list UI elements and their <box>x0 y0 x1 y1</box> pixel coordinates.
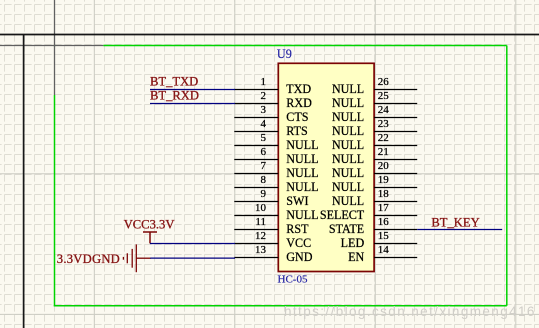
svg-text:NULL: NULL <box>286 180 318 194</box>
pin 15 (LED) right <box>341 230 418 250</box>
svg-text:U9: U9 <box>277 47 292 61</box>
svg-text:NULL: NULL <box>332 180 364 194</box>
pin 3 (CTS) left <box>234 104 308 124</box>
sheet border black vertical line <box>23 34 25 328</box>
pin 16 (STATE) right <box>329 216 417 236</box>
svg-text:1: 1 <box>261 76 267 88</box>
svg-text:16: 16 <box>378 216 390 228</box>
pin 23 (NULL) right <box>332 118 417 138</box>
svg-text:NULL: NULL <box>332 82 364 96</box>
svg-text:4: 4 <box>261 118 267 130</box>
wire ground to pin 13 <box>150 257 235 259</box>
svg-text:NULL: NULL <box>332 96 364 110</box>
svg-text:12: 12 <box>255 230 266 242</box>
svg-text:3: 3 <box>261 104 267 116</box>
svg-text:20: 20 <box>378 160 390 172</box>
svg-text:SWI: SWI <box>286 194 308 208</box>
pin 18 (NULL) right <box>332 188 417 208</box>
svg-text:7: 7 <box>261 160 267 172</box>
svg-text:8: 8 <box>261 174 267 186</box>
svg-text:6: 6 <box>261 146 267 158</box>
svg-text:NULL: NULL <box>332 194 364 208</box>
svg-text:23: 23 <box>378 118 390 130</box>
wire BT_RXD to pin 2 <box>150 103 235 105</box>
svg-text:BT_KEY: BT_KEY <box>431 216 479 230</box>
svg-text:RST: RST <box>286 222 309 236</box>
pin 20 (NULL) right <box>332 160 417 180</box>
ground symbol 3.3VDGND (power ground bars) <box>123 244 150 272</box>
sheet inner frame gray vertical line <box>54 0 56 95</box>
wire BT_TXD to pin 1 <box>150 89 235 91</box>
wire VCC3.3V to pin 12 <box>150 243 235 245</box>
svg-text:STATE: STATE <box>329 222 364 236</box>
svg-text:15: 15 <box>378 230 390 242</box>
svg-text:13: 13 <box>255 244 267 256</box>
pin 5 (NULL) left <box>234 132 318 152</box>
svg-text:NULL: NULL <box>286 138 318 152</box>
svg-text:9: 9 <box>261 188 267 200</box>
power port VCC3.3V (bar symbol) <box>143 232 157 243</box>
svg-text:NULL: NULL <box>332 166 364 180</box>
svg-text:NULL: NULL <box>286 152 318 166</box>
svg-text:14: 14 <box>378 244 390 256</box>
pin 14 (EN) right <box>348 244 417 264</box>
pin 13 (GND) left <box>234 244 312 264</box>
svg-text:22: 22 <box>378 132 389 144</box>
svg-text:GND: GND <box>286 250 312 264</box>
sheet border black horizontal line <box>0 34 539 36</box>
svg-text:NULL: NULL <box>332 152 364 166</box>
pin 6 (NULL) left <box>234 146 318 166</box>
pin 10 (NULL) left <box>234 202 318 222</box>
pin 2 (RXD) left <box>234 90 312 110</box>
svg-text:BT_TXD: BT_TXD <box>150 75 198 89</box>
svg-text:NULL: NULL <box>286 208 318 222</box>
green boundary rectangle <box>54 45 507 307</box>
svg-text:CTS: CTS <box>286 110 308 124</box>
svg-text:VCC3.3V: VCC3.3V <box>124 217 175 231</box>
pin 17 (SELECT) right <box>320 202 417 222</box>
svg-text:EN: EN <box>348 250 364 264</box>
svg-text:25: 25 <box>378 90 390 102</box>
pin 21 (NULL) right <box>332 146 417 166</box>
svg-text:RTS: RTS <box>286 124 307 138</box>
svg-text:NULL: NULL <box>332 110 364 124</box>
pin 9 (SWI) left <box>234 188 308 208</box>
svg-text:24: 24 <box>378 104 390 116</box>
wire BT_KEY from pin 16 <box>417 229 502 231</box>
svg-text:SELECT: SELECT <box>320 208 365 222</box>
svg-text:NULL: NULL <box>286 166 318 180</box>
svg-text:LED: LED <box>341 236 365 250</box>
svg-text:5: 5 <box>261 132 267 144</box>
svg-text:21: 21 <box>378 146 389 158</box>
svg-text:3.3VDGND: 3.3VDGND <box>57 252 120 266</box>
svg-text:HC-05: HC-05 <box>278 274 308 286</box>
pin 1 (TXD) left <box>234 76 311 96</box>
svg-text:10: 10 <box>255 202 267 214</box>
pin 26 (NULL) right <box>332 76 417 96</box>
pin 11 (RST) left <box>234 216 309 236</box>
svg-text:26: 26 <box>378 76 390 88</box>
svg-text:17: 17 <box>378 202 390 214</box>
svg-text:NULL: NULL <box>332 138 364 152</box>
svg-text:18: 18 <box>378 188 390 200</box>
svg-text:NULL: NULL <box>332 124 364 138</box>
svg-text:2: 2 <box>261 90 267 102</box>
svg-text:BT_RXD: BT_RXD <box>150 89 199 103</box>
pin 25 (NULL) right <box>332 90 417 110</box>
pin 4 (RTS) left <box>234 118 307 138</box>
svg-text:11: 11 <box>255 216 266 228</box>
pin 24 (NULL) right <box>332 104 417 124</box>
pin 22 (NULL) right <box>332 132 417 152</box>
svg-text:RXD: RXD <box>286 96 312 110</box>
svg-text:VCC: VCC <box>286 236 311 250</box>
pin 19 (NULL) right <box>332 174 417 194</box>
svg-text:19: 19 <box>378 174 390 186</box>
sheet inner frame gray horizontal line <box>0 45 103 47</box>
pin 8 (NULL) left <box>234 174 318 194</box>
pin 7 (NULL) left <box>234 160 318 180</box>
IC U9 component body (HC-05 module) <box>278 63 374 271</box>
svg-text:https://blog.csdn.net/xingmeng: https://blog.csdn.net/xingmeng416 <box>284 304 536 319</box>
svg-text:TXD: TXD <box>286 82 311 96</box>
pin 12 (VCC) left <box>234 230 311 250</box>
